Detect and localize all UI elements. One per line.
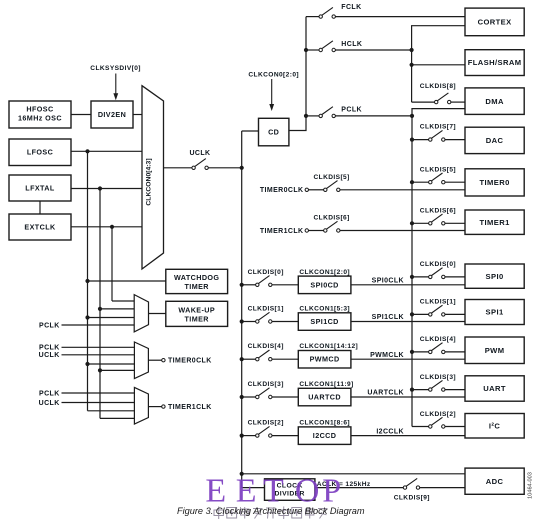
node HCLK on rail [410, 48, 414, 52]
label PCLK into timer1 mux [39, 390, 60, 397]
svg-text:E: E [236, 472, 257, 509]
svg-text:P: P [322, 472, 341, 509]
svg-text:SPI1: SPI1 [486, 308, 504, 317]
svg-text:CLKDIS[4]: CLKDIS[4] [248, 343, 284, 350]
svg-text:CLKDIS[8]: CLKDIS[8] [420, 83, 456, 90]
label ACLK = 125kHz [317, 481, 371, 488]
svg-text:CLKCON1[2:0]: CLKCON1[2:0] [299, 269, 350, 276]
block UART [465, 376, 524, 401]
wire CD output to vertical [289, 17, 306, 131]
arrow CLKSYSDIV[0] into DIV2EN [113, 74, 118, 101]
switch HCLK [319, 41, 335, 52]
watermark chinese text [214, 507, 328, 520]
svg-text:SPI0CLK: SPI0CLK [372, 278, 404, 285]
watermark EETOP purple letters [205, 472, 341, 509]
label CLKCON1[2:0] [299, 269, 350, 276]
block EXTCLK external clock [9, 214, 71, 240]
terminal TIMER1CLK output [162, 405, 165, 408]
wire LFOSC into timer0 mux [85, 362, 134, 366]
svg-text:DMA: DMA [485, 97, 504, 106]
wire LFXTAL to mux with node [71, 186, 142, 190]
label figure number 10464-003 [528, 472, 534, 499]
svg-text:TIMER1CLK: TIMER1CLK [260, 228, 304, 235]
label CLKDIS[2] for I2C [420, 411, 456, 418]
svg-text:CD: CD [268, 128, 279, 137]
svg-text:CLKCON1[14:12]: CLKCON1[14:12] [299, 343, 358, 350]
svg-text:TIMER0: TIMER0 [479, 178, 509, 187]
wire node to CD input [242, 130, 259, 132]
label CLKDIS[5] for TIMER0 [420, 166, 456, 173]
switch CLKDIS[1] feeding SPI1 [410, 305, 465, 316]
wire UCLK into timer1 mux [62, 402, 135, 404]
wire divider to switch [315, 487, 403, 489]
wire LFOSC to mux with node [71, 149, 142, 153]
svg-text:TIMER1CLK: TIMER1CLK [168, 404, 212, 411]
wire DIV2EN to mux [133, 114, 142, 116]
label UCLK into timer0 mux [39, 352, 60, 359]
block SPI1CD clock divider [298, 313, 351, 331]
wire to FCLK switch [306, 16, 319, 18]
label CLKDIS[0] for SPI0 [420, 261, 456, 268]
svg-text:CLKDIS[3]: CLKDIS[3] [248, 381, 284, 388]
label CLKDIS[4] for PWM [420, 336, 456, 343]
wire PCLK rail vertical [412, 109, 465, 427]
block FLASH/SRAM [465, 50, 524, 76]
node FLASH branch [410, 63, 414, 67]
label CLKDIS[9] [394, 495, 430, 502]
label CLKDIS[8] [420, 83, 456, 90]
switch CLKDIS[8] [435, 93, 451, 104]
wire to WATCHDOG TIMER [88, 280, 166, 282]
svg-text:PCLK: PCLK [39, 322, 60, 329]
svg-text:CLKDIS[4]: CLKDIS[4] [420, 336, 456, 343]
wire to PCLK switch [306, 115, 319, 117]
svg-text:PWM: PWM [485, 346, 505, 355]
switch CLKDIS[5] on TIMER0CLK [309, 181, 340, 192]
svg-text:TIMER: TIMER [185, 314, 210, 323]
mux CLKCON0[4:3] clock source select [142, 86, 164, 269]
svg-text:HFOSC: HFOSC [26, 105, 53, 114]
svg-text:SPI0: SPI0 [486, 272, 504, 281]
label TIMER0CLK output [168, 358, 212, 365]
label CLKDIS[6] for TIMER1CLK [314, 215, 350, 222]
label CLKDIS[4] for PWMCD [248, 343, 284, 350]
label CLKDIS[0] for SPI0CD [248, 269, 284, 276]
wire I2CCLK to peripheral [351, 435, 465, 437]
label HCLK [341, 41, 362, 48]
wire LFOSC into wake-up mux [85, 315, 134, 319]
svg-text:UCLK: UCLK [39, 352, 60, 359]
svg-text:O: O [295, 472, 320, 509]
svg-text:CLKCON0[4:3]: CLKCON0[4:3] [146, 158, 153, 205]
switch CLKDIS[3] into UARTCD [240, 388, 299, 399]
label I2CCLK [376, 428, 404, 435]
wire EXTCLK vertical rail [111, 227, 113, 301]
svg-text:CLKDIS[0]: CLKDIS[0] [420, 261, 456, 268]
svg-text:CLKDIS[1]: CLKDIS[1] [248, 306, 284, 313]
wire into CLOCK DIVIDER [242, 487, 265, 489]
node PCLK joins rail [410, 114, 414, 118]
svg-text:PCLK: PCLK [39, 345, 60, 352]
block UARTCD clock divider [298, 388, 351, 406]
svg-text:UCLK: UCLK [189, 150, 210, 157]
svg-text:TIMER: TIMER [185, 282, 210, 291]
svg-text:DAC: DAC [486, 136, 504, 145]
switch CLKDIS[5] feeding TIMER0 [410, 173, 465, 184]
wire FCLK to CORTEX [335, 16, 465, 18]
switch FCLK [319, 7, 335, 18]
svg-text:16MHz OSC: 16MHz OSC [18, 114, 62, 123]
svg-text:LFXTAL: LFXTAL [25, 184, 55, 193]
wire switch to ADC [420, 487, 465, 489]
label PCLK into timer0 mux [39, 345, 60, 352]
wire TIMER1CLK to timer box [340, 230, 465, 232]
wire SPI0CLK to peripheral [351, 284, 465, 286]
label CLKCON1[14:12] [299, 343, 358, 350]
label UCLK into timer1 mux [39, 400, 60, 407]
svg-text:PWMCD: PWMCD [310, 355, 340, 364]
mux TIMER1CLK select [134, 387, 148, 424]
svg-text:CLKCON1[8:6]: CLKCON1[8:6] [299, 420, 350, 427]
wire CD left rail vertical [241, 131, 243, 488]
block CD clock divider [259, 118, 289, 146]
node UCLK to ADC [240, 472, 244, 476]
svg-text:PWMCLK: PWMCLK [370, 352, 404, 359]
svg-text:HCLK: HCLK [341, 41, 362, 48]
svg-text:FLASH/SRAM: FLASH/SRAM [468, 58, 522, 67]
wire to DMA switch [412, 101, 435, 103]
label TIMER1CLK net [260, 228, 304, 235]
wire HCLK to rail [335, 49, 411, 51]
block ADC [465, 468, 524, 494]
wire HCLK vertical rail [412, 26, 465, 102]
svg-text:TIMER0CLK: TIMER0CLK [260, 187, 304, 194]
block SPI0 [465, 264, 524, 288]
label UCLK [189, 150, 210, 157]
wire to HCLK switch [306, 49, 319, 51]
switch CLKDIS[0] into SPI0CD [240, 276, 299, 287]
switch CLKDIS[6] on TIMER1CLK [309, 221, 340, 232]
svg-text:CLKDIS[2]: CLKDIS[2] [420, 411, 456, 418]
wire PCLK into timer0 mux [62, 346, 135, 348]
node PCLK branch [304, 114, 308, 118]
wire UCLK switch to node [208, 166, 243, 170]
wire EXTCLK into wake-up mux [112, 300, 134, 302]
svg-text:CLKDIS[2]: CLKDIS[2] [248, 420, 284, 427]
label PCLK [341, 107, 362, 114]
label CLKCON1[5:3] [299, 306, 350, 313]
block DMA [465, 88, 524, 115]
block DAC [465, 127, 524, 153]
switch CLKDIS[4] into PWMCD [240, 350, 299, 361]
label CLKDIS[2] for I2CCD [248, 420, 284, 427]
svg-text:SPI1CD: SPI1CD [310, 317, 338, 326]
wire LFXTAL to EXTCLK [39, 201, 41, 214]
wire LFXTAL into timer1 mux [100, 417, 134, 419]
wire SPI1CLK to peripheral [351, 321, 465, 323]
wire UCLK into timer0 mux [62, 354, 135, 356]
block I2CCD clock divider [298, 427, 351, 445]
block LFXTAL crystal [9, 175, 71, 201]
svg-text:CLKDIS[6]: CLKDIS[6] [314, 215, 350, 222]
label PWMCLK [370, 352, 404, 359]
label FCLK [341, 4, 361, 11]
arrow CLKCON0[2:0] into CD [269, 79, 274, 111]
switch CLKDIS[9] [403, 478, 419, 489]
node LFOSC to watchdog [85, 279, 89, 283]
label CLKCON0[2:0] [248, 71, 299, 78]
wire EXTCLK to mux with node [71, 225, 142, 229]
node HCLK branch [304, 48, 308, 52]
svg-text:SPI1CLK: SPI1CLK [372, 314, 404, 321]
svg-text:UARTCLK: UARTCLK [367, 390, 404, 397]
svg-text:I2CCLK: I2CCLK [376, 428, 404, 435]
label CLKDIS[5] for TIMER0CLK [314, 174, 350, 181]
label CLKDIS[3] for UART [420, 374, 456, 381]
caption Figure 3 [177, 506, 365, 516]
block TIMER0 [465, 169, 524, 196]
wire UCLK rail to ADC [242, 473, 465, 475]
mux wake-up timer select [134, 295, 148, 332]
terminal TIMER1CLK [305, 229, 308, 232]
svg-text:CLKDIS[3]: CLKDIS[3] [420, 374, 456, 381]
svg-text:PCLK: PCLK [341, 107, 362, 114]
svg-text:CLKSYSDIV[0]: CLKSYSDIV[0] [90, 65, 141, 72]
svg-text:CLKCON1[5:3]: CLKCON1[5:3] [299, 306, 350, 313]
terminal TIMER0CLK output [162, 359, 165, 362]
svg-text:TIMER0CLK: TIMER0CLK [168, 358, 212, 365]
switch CLKDIS[7] feeding DAC [410, 130, 465, 141]
label CLKDIS[1] for SPI1CD [248, 306, 284, 313]
label CLKDIS[6] for TIMER1 [420, 207, 456, 214]
svg-text:CLKDIS[9]: CLKDIS[9] [394, 495, 430, 502]
wire timer1 mux output [148, 406, 161, 408]
svg-text:CLKDIS[5]: CLKDIS[5] [420, 166, 456, 173]
svg-text:CLKDIS[1]: CLKDIS[1] [420, 299, 456, 306]
label PCLK into wake-up mux [39, 322, 60, 329]
block I2C [465, 414, 524, 439]
label TIMER1CLK output [168, 404, 212, 411]
block WAKE-UP TIMER [166, 301, 228, 326]
svg-text:PCLK: PCLK [39, 390, 60, 397]
switch CLKDIS[2] feeding I2C [412, 417, 465, 428]
svg-text:TIMER1: TIMER1 [479, 218, 510, 227]
switch UCLK [192, 159, 208, 170]
block LFOSC oscillator [9, 139, 71, 166]
block DIV2EN divider [91, 101, 133, 128]
svg-text:T: T [263, 472, 284, 509]
label CLKDIS[3] for UARTCD [248, 381, 284, 388]
svg-text:EXTCLK: EXTCLK [24, 223, 56, 232]
block WATCHDOG TIMER [166, 269, 228, 293]
label SPI1CLK [372, 314, 404, 321]
wire LFOSC vertical rail [87, 151, 89, 411]
block CORTEX [465, 8, 524, 36]
svg-text:CLKDIS[6]: CLKDIS[6] [420, 207, 456, 214]
wire wake-up mux to timer [149, 313, 166, 315]
switch CLKDIS[3] feeding UART [410, 380, 465, 391]
wire UARTCLK to peripheral [351, 396, 465, 398]
wire DMA switch to DMA [451, 101, 465, 103]
svg-text:I²C: I²C [489, 421, 500, 430]
svg-text:10464-003: 10464-003 [528, 472, 534, 499]
switch CLKDIS[4] feeding PWM [410, 343, 465, 354]
svg-text:E: E [205, 472, 226, 509]
switch CLKDIS[0] feeding SPI0 [410, 268, 465, 279]
wire to FLASH/SRAM [412, 64, 465, 66]
block CLOCK DIVIDER [265, 479, 315, 501]
wire HFOSC to DIV2EN [71, 114, 91, 116]
label CLKSYSDIV[0] [90, 65, 141, 72]
svg-text:CLKCON0[2:0]: CLKCON0[2:0] [248, 71, 299, 78]
svg-text:UCLK: UCLK [39, 400, 60, 407]
block TIMER1 [465, 210, 524, 234]
block SPI0CD clock divider [298, 276, 351, 294]
svg-text:I2CCD: I2CCD [313, 431, 337, 440]
switch PCLK [319, 107, 335, 118]
wire PCLK to rail [335, 115, 412, 117]
svg-text:CLKCON1[11:9]: CLKCON1[11:9] [299, 381, 353, 388]
label SPI0CLK [372, 278, 404, 285]
label CLKCON1[11:9] [299, 381, 353, 388]
label UARTCLK [367, 390, 404, 397]
block PWM [465, 337, 524, 364]
label TIMER0CLK net [260, 187, 304, 194]
switch CLKDIS[1] into SPI1CD [240, 312, 299, 323]
svg-text:LFOSC: LFOSC [27, 148, 53, 157]
svg-text:WATCHDOG: WATCHDOG [174, 273, 219, 282]
svg-text:SPI0CD: SPI0CD [310, 280, 338, 289]
switch CLKDIS[6] feeding TIMER1 [410, 214, 465, 225]
label CLKDIS[7] for DAC [420, 123, 456, 130]
wire LFXTAL vertical rail [99, 189, 101, 419]
wire PWMCLK to peripheral [351, 358, 465, 360]
svg-text:CLKDIS[7]: CLKDIS[7] [420, 123, 456, 130]
terminal TIMER0CLK [305, 188, 308, 191]
block HFOSC 16MHz oscillator [9, 101, 71, 128]
svg-text:CORTEX: CORTEX [478, 18, 512, 27]
wire PCLK into wake-up mux [62, 324, 135, 326]
svg-text:FCLK: FCLK [341, 4, 361, 11]
mux TIMER0CLK select [134, 342, 148, 379]
block SPI1 [465, 300, 524, 325]
svg-text:CLKDIS[0]: CLKDIS[0] [248, 269, 284, 276]
wire timer0 mux output [148, 359, 161, 361]
wire LFXTAL into wake-up mux [98, 307, 134, 311]
wire TIMER0CLK to timer box [340, 189, 465, 191]
switch CLKDIS[2] into I2CCD [240, 426, 299, 437]
block PWMCD clock divider [298, 351, 351, 369]
svg-text:ADC: ADC [486, 477, 504, 486]
wire LFOSC into timer1 mux [88, 410, 135, 412]
svg-text:UART: UART [483, 384, 506, 393]
svg-text:Figure 3. Clocking Architectur: Figure 3. Clocking Architecture Block Di… [177, 506, 365, 516]
svg-text:DIV2EN: DIV2EN [98, 110, 126, 119]
svg-text:UARTCD: UARTCD [308, 393, 341, 402]
svg-text:CLKDIS[5]: CLKDIS[5] [314, 174, 350, 181]
wire LFXTAL into timer0 mux [98, 368, 134, 372]
label CLKDIS[1] for SPI1 [420, 299, 456, 306]
label CLKCON1[8:6] [299, 420, 350, 427]
svg-text:WAKE-UP: WAKE-UP [178, 305, 215, 314]
wire PCLK into timer1 mux [62, 392, 135, 394]
wire mux output UCLK [164, 167, 192, 169]
